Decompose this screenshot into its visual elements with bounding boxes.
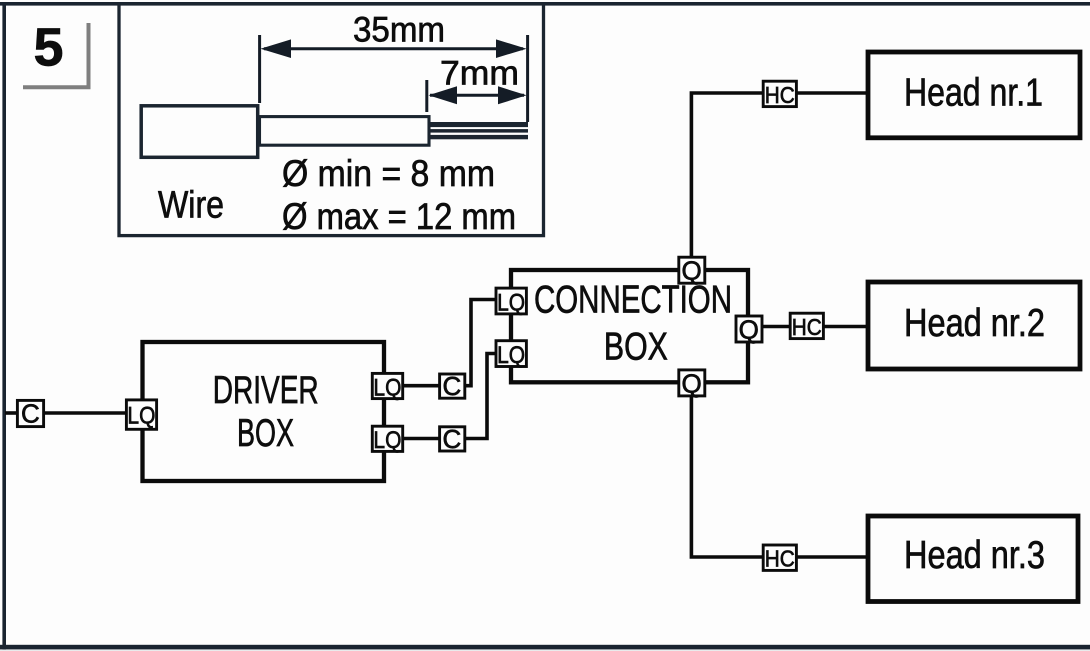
svg-text:Head nr.1: Head nr.1 (904, 72, 1043, 115)
wire: C3 to LQ5 (riser) (464, 354, 496, 439)
head box 3 (868, 516, 1078, 602)
wire: border to C1 (5, 411, 17, 415)
connector HC3 (763, 545, 796, 572)
connector C3 (440, 424, 465, 454)
svg-text:35mm: 35mm (353, 9, 445, 49)
svg-text:BOX: BOX (604, 325, 668, 368)
connector LQ5 (connection left bottom) (496, 341, 526, 369)
wire: Q right to HC2 (762, 325, 790, 329)
svg-text:BOX: BOX (237, 412, 294, 455)
connector HC1 (763, 81, 796, 108)
svg-text:LQ: LQ (373, 374, 401, 401)
svg-text:C: C (21, 399, 40, 429)
svg-text:Head nr.3: Head nr.3 (904, 534, 1045, 577)
corner bracket (gray) (23, 23, 89, 87)
connector Q3 (connection bottom) (679, 368, 705, 398)
connector C1 (17, 399, 43, 429)
svg-text:5: 5 (34, 18, 64, 78)
connector LQ2 (driver right top) (372, 373, 402, 401)
connector Q2 (connection right) (736, 315, 762, 345)
dimension 35mm (260, 35, 528, 122)
svg-text:HC: HC (792, 314, 822, 340)
wire: Q top to HC1 (691, 93, 763, 256)
svg-text:LQ: LQ (497, 342, 525, 369)
svg-text:Ø min = 8 mm: Ø min = 8 mm (282, 153, 495, 194)
wire: HC1 to head 1 (796, 91, 868, 95)
wire: HC3 to head 3 (795, 555, 868, 559)
wire: LQ3 to C3 (402, 437, 440, 441)
inset box (wire detail) (119, 4, 544, 236)
page frame left border (2, 2, 6, 650)
svg-text:Q: Q (681, 256, 701, 286)
svg-text:Q: Q (681, 368, 701, 398)
wire insulation (260, 117, 430, 146)
head box 1 (868, 52, 1080, 138)
wire: LQ2 to C2 (402, 384, 440, 388)
svg-text:C: C (443, 371, 462, 401)
svg-text:CONNECTION: CONNECTION (534, 278, 732, 321)
svg-text:C: C (443, 424, 462, 454)
svg-text:DRIVER: DRIVER (213, 369, 319, 412)
svg-text:7mm: 7mm (440, 55, 519, 93)
connector Q1 (connection top) (679, 256, 705, 286)
svg-text:LQ: LQ (497, 289, 525, 316)
connector LQ4 (connection left top) (496, 288, 526, 316)
svg-text:Q: Q (739, 315, 759, 345)
svg-text:LQ: LQ (373, 427, 401, 454)
wire: C1 to LQ1 (43, 411, 126, 415)
connector HC2 (790, 313, 823, 340)
svg-text:HC: HC (765, 546, 795, 572)
page frame bottom border (0, 645, 1090, 650)
connection box (511, 270, 748, 382)
page frame top border (0, 2, 1090, 6)
svg-text:Wire: Wire (158, 185, 224, 227)
connector LQ3 (driver right bottom) (372, 426, 402, 454)
connector C2 (440, 371, 465, 401)
dimension 7mm (427, 80, 524, 112)
connector LQ1 (driver left) (126, 400, 156, 430)
svg-text:HC: HC (765, 82, 795, 108)
head box 2 (868, 282, 1080, 369)
svg-text:Head nr.2: Head nr.2 (904, 302, 1045, 345)
wire strands (429, 122, 528, 139)
wire sheath (141, 106, 258, 158)
svg-text:LQ: LQ (127, 403, 155, 430)
wire: Q bottom to HC3 (691, 396, 763, 557)
driver box (143, 342, 385, 481)
wire: C2 to LQ4 (riser) (464, 300, 496, 386)
svg-text:Ø max = 12 mm: Ø max = 12 mm (282, 196, 516, 237)
wire: HC2 to head 2 (824, 325, 868, 329)
